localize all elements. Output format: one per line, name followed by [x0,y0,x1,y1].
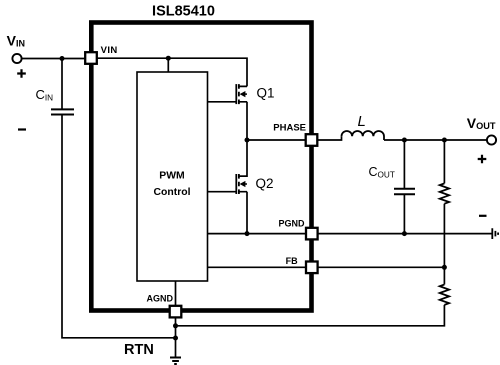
svg-text:PWM: PWM [159,171,184,182]
transistor Q1 [236,84,247,104]
wire VOUT row [384,139,487,141]
capacitor C_OUT upper lead [403,140,405,189]
wire CIN branch lower + RTN run [62,115,176,338]
minus sign (output) [479,215,487,217]
svg-text:Control: Control [154,187,191,198]
capacitor C_IN plates [51,109,74,114]
svg-text:Q2: Q2 [256,176,274,191]
node Q2 source / PGND [245,231,250,236]
wire PGND inside [208,233,307,235]
node PHASE junction [245,138,250,143]
wire VIN row outside [22,58,85,60]
svg-text:Q1: Q1 [257,85,275,100]
svg-text:COUT: COUT [369,165,395,179]
terminal V_IN circle [12,54,21,63]
ground (output return, sideways) [492,228,498,239]
transistor Q2 [236,174,247,194]
svg-text:CIN: CIN [36,87,54,103]
pin PGND [278,219,317,240]
wire PHASE outside to inductor [317,136,341,140]
wire Q1 source / Q2 drain column [239,102,247,176]
wire PHASE inside [247,139,306,141]
svg-text:PHASE: PHASE [273,123,306,134]
svg-text:VIN: VIN [7,32,25,48]
node FB divider [442,265,447,270]
capacitor C_OUT lower lead [403,194,405,233]
minus sign (input) [18,128,26,130]
svg-text:VOUT: VOUT [467,115,496,131]
svg-text:ISL85410: ISL85410 [152,4,215,20]
wire FB outside [317,266,444,268]
node R1 top [442,138,447,143]
pin AGND [147,293,182,317]
plus sign (output) [478,155,487,164]
wire AGND stub [175,281,177,306]
pin VIN [85,45,117,64]
svg-text:RTN: RTN [124,342,154,358]
pin FB [286,256,318,273]
capacitor C_OUT plates [394,189,415,195]
node COUT top [402,138,407,143]
resistor R2 (lower divider) [440,285,449,305]
wire AGND below pin [175,317,177,357]
svg-text:L: L [358,113,366,130]
svg-text:PGND: PGND [278,219,305,229]
resistor R1 lower lead [443,204,445,268]
terminal V_OUT circle [487,135,496,144]
node COUT bottom [402,231,407,236]
resistor R2 upper lead [443,267,445,284]
inductor L [342,131,385,140]
svg-text:AGND: AGND [147,293,174,303]
pin PHASE [273,123,317,146]
node CIN junction [60,56,65,61]
plus sign (input) [17,69,26,78]
resistor R2 bottom return to AGND [176,305,445,326]
IC body U1 ISL85410 [91,23,311,311]
node VIN-PWM junction [166,56,171,61]
resistor R1 upper lead [443,140,445,183]
wire VIN row inside to Q1 drain [97,58,247,86]
wire stub to PWM top [167,58,169,72]
wire PGND outside [317,233,492,235]
transistor Q1 gate wire [208,101,237,103]
svg-text:FB: FB [286,256,298,266]
resistor R1 (upper divider) [440,183,449,203]
node AGND / RTN [173,336,178,341]
ground (AGND) [170,358,181,365]
wire FB inside [208,266,307,268]
svg-text:VIN: VIN [101,45,118,56]
transistor Q2 gate wire [208,191,237,193]
PWM Control block [137,72,208,281]
wire Q2 source to PGND [246,192,248,234]
node AGND / R2 return [173,323,178,328]
wire CIN branch upper [61,59,63,110]
